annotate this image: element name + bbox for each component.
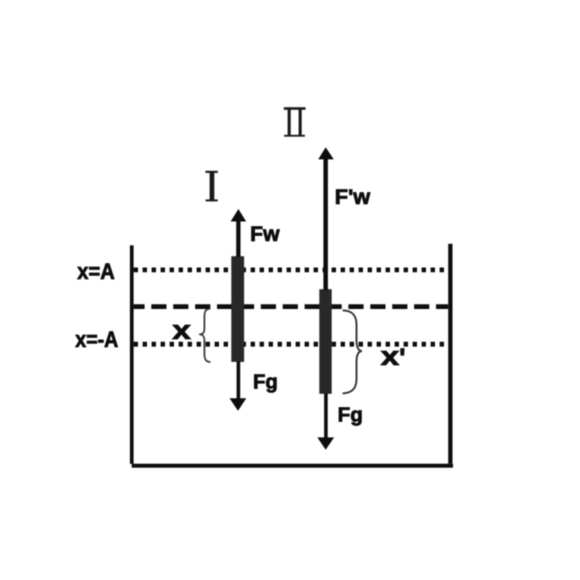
svg-text:F'w: F'w (335, 186, 371, 209)
rod II (319, 289, 331, 394)
brace x for rod I (199, 309, 210, 363)
svg-text:': ' (399, 343, 405, 373)
arrow Fw up from rod I (231, 209, 247, 257)
roman numeral I (205, 171, 217, 202)
rod I (231, 256, 244, 362)
roman numeral II (284, 107, 306, 137)
svg-text:x=A: x=A (77, 259, 115, 284)
svg-text:Fg: Fg (253, 371, 278, 394)
svg-text:Fg: Fg (338, 403, 363, 426)
brace x' for rod II (343, 310, 362, 393)
arrow Fg down from rod II (317, 394, 334, 450)
dotted line x=-A (134, 342, 447, 347)
container left wall (130, 245, 134, 464)
dotted water line x=A (134, 268, 447, 273)
dashed equilibrium line x=0 (134, 304, 449, 309)
arrow F'w up from rod II (318, 147, 334, 290)
svg-text:x=-A: x=-A (75, 327, 118, 352)
arrow Fg down from rod I (230, 362, 247, 411)
svg-text:Fw: Fw (250, 223, 280, 246)
svg-text:x: x (172, 317, 191, 345)
container bottom (132, 464, 453, 468)
svg-text:x: x (381, 343, 400, 371)
container right wall (448, 244, 452, 464)
